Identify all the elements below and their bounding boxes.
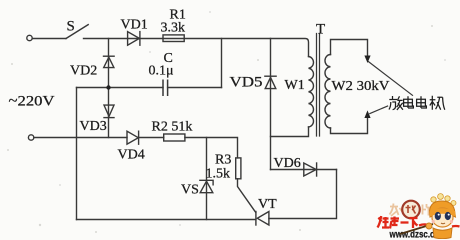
svg-text:VD1: VD1 [121,18,148,33]
svg-text:R3: R3 [215,153,231,168]
wire: R3 bottom lead and gate lead to VT [238,179,256,213]
transformer secondary W2 coil [325,54,331,128]
watermark: mascot [400,194,456,239]
svg-text:VD2: VD2 [70,64,97,79]
svg-text:VD6: VD6 [274,156,301,171]
transformer primary W1 coil [309,57,314,128]
svg-text:W2 30kV: W2 30kV [332,79,390,94]
diode VD6 [304,163,317,176]
wire: W2 top lead to electrode [331,40,368,57]
leader line to bottom electrode [370,106,388,114]
diode VD5 [265,76,276,88]
wire: left column down to bottom rail [76,88,78,220]
diode VD2 [104,56,115,67]
label 放电电极 (discharge electrode, drawn glyphs) [389,96,445,110]
switch S lever [66,25,88,39]
wire: top terminal to switch pivot [32,38,66,40]
wire: VD5 column [270,39,272,170]
watermark: badge 找 circle [402,201,420,219]
wire: W2 bottom lead to electrode [331,117,368,133]
terminal top-left [27,35,32,40]
svg-text:VS: VS [181,183,199,198]
svg-text:VD3: VD3 [80,119,107,134]
wire: capacitor row [77,87,222,89]
svg-text:W1: W1 [285,78,305,93]
wire: W1 bottom lead branch [271,127,309,137]
resistor R1 [163,35,184,42]
junction node VD2/VD3/C [106,85,110,89]
leader line to top electrode [368,62,412,96]
svg-text:3.3k: 3.3k [161,21,186,36]
resistor R2 [164,134,185,141]
diode VD4 [127,131,139,144]
wire: VD6 row [271,169,337,171]
terminal bottom-left [28,135,33,140]
wire: VD2/VD3 column [108,39,110,138]
transformer T core [317,34,320,137]
resistor R3 [236,158,241,179]
wire: AC row (lower terminal to R3 corner) [34,138,238,158]
zener VS [200,180,213,192]
wire: vertical from top rail to capacitor row at x=221 [221,39,223,88]
svg-text:R2 51k: R2 51k [152,120,193,135]
svg-text:1.5k: 1.5k [206,167,231,182]
svg-text:~220V: ~220V [9,94,55,110]
capacitor C plates [163,80,168,95]
svg-text:VD4: VD4 [118,148,145,163]
thyristor VT [256,212,269,226]
wire: top rail from switch to transformer corner [84,39,309,57]
svg-text:S: S [67,19,75,35]
watermark: faint tan character 我 [390,204,403,217]
wire: bottom rail right segment with corner up to VD6 row [269,170,337,219]
svg-text:VD5: VD5 [230,75,263,91]
wire: VS column [206,138,208,220]
diode VD3 [104,105,114,118]
electrode arrow top [364,56,370,64]
svg-text:VT: VT [258,197,277,212]
svg-text:T: T [316,22,325,38]
watermark: faint tan character 片 [423,204,431,216]
svg-text:0.1μ: 0.1μ [149,64,174,79]
watermark: red 维库一下 with trailing stroke [378,216,460,229]
electrode arrow bottom [364,110,370,118]
diode VD1 [128,32,140,46]
wire: bottom rail left segment [77,219,256,221]
